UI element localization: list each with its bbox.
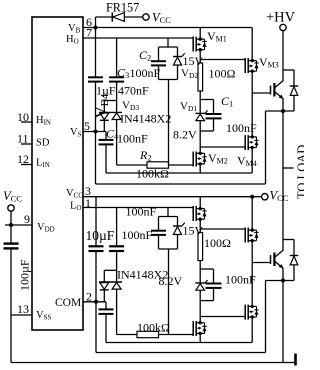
terminal +HV	[280, 24, 286, 30]
resistor 100 Ohm (lower)	[198, 233, 203, 261]
wire lower C1 loop rails	[200, 268, 213, 270]
capacitor C4 100nF	[99, 132, 114, 174]
svg-text:15V: 15V	[183, 54, 204, 68]
svg-text:VD3: VD3	[122, 100, 139, 113]
svg-text:C3: C3	[117, 66, 129, 81]
svg-text:VD2: VD2	[181, 68, 198, 81]
svg-text:VB: VB	[68, 23, 81, 35]
wire gate line to VM3'	[200, 228, 245, 230]
transistor VM1	[193, 37, 207, 52]
capacitor 10uF	[89, 197, 104, 302]
svg-text:HO: HO	[66, 34, 79, 46]
diode VD3 (IN4148, right of pair)	[112, 113, 121, 165]
wire VB corner to VM3 drain	[251, 28, 253, 61]
svg-text:100nF: 100nF	[117, 132, 148, 146]
svg-text:VS: VS	[70, 127, 82, 139]
terminal Vcc (upper, bootstrap supply)	[143, 14, 149, 20]
svg-text:SD: SD	[36, 138, 50, 149]
svg-text:1: 1	[85, 196, 91, 210]
resistor 100 Ohm (upper)	[198, 63, 203, 91]
wire Vcc corner to VM3' drain	[251, 197, 253, 230]
wire VS down to mid rail	[95, 132, 97, 185]
svg-text:100kΩ: 100kΩ	[136, 167, 169, 181]
svg-text:100nF: 100nF	[122, 228, 153, 242]
wire lower loop rails	[159, 216, 178, 218]
pin stub 11	[21, 143, 32, 145]
wire VM1 drain to VB	[199, 28, 201, 40]
wire C1 loop rails	[200, 99, 213, 101]
wire lower diode-pair top link	[104, 269, 116, 271]
svg-text:LO: LO	[70, 201, 81, 213]
svg-text:100nF: 100nF	[126, 205, 157, 219]
terminal Vcc (lower)	[262, 194, 268, 200]
diode antiparallel (lower IGBT)	[290, 240, 299, 281]
wire VS pin5 line	[83, 131, 106, 133]
wire Vcc line pin3	[83, 196, 252, 198]
svg-text:VCC: VCC	[66, 188, 83, 200]
svg-text:FR157: FR157	[106, 1, 139, 15]
capacitor C3 470nF	[109, 38, 124, 112]
capacitor 100nF (lower C4)	[99, 302, 114, 343]
svg-text:VD4: VD4	[92, 94, 112, 119]
svg-text:+HV: +HV	[266, 10, 296, 26]
svg-text:7: 7	[86, 25, 92, 39]
wire emitter rail (midpoint)	[266, 110, 295, 112]
svg-text:100µF: 100µF	[18, 259, 32, 291]
diode IN4148 (right of lower pair)	[112, 283, 121, 335]
svg-text:2: 2	[86, 289, 92, 303]
svg-text:VCC: VCC	[270, 189, 289, 204]
wire pin9 VDD line	[5, 224, 32, 226]
svg-text:IN4148X2: IN4148X2	[117, 268, 168, 282]
transistor VM2	[193, 152, 207, 167]
wire midpoint down to VS rail	[265, 111, 267, 184]
svg-text:VD1: VD1	[180, 101, 197, 114]
svg-text:12: 12	[17, 152, 29, 166]
node junction COM	[94, 300, 98, 304]
wire VS rail to bridge midpoint	[96, 183, 266, 185]
capacitor C1 100nF	[206, 100, 222, 132]
svg-text:470nF: 470nF	[118, 84, 149, 98]
transistor VM3'	[245, 228, 259, 243]
svg-text:10: 10	[17, 110, 29, 124]
svg-text:LIN: LIN	[36, 158, 50, 170]
transistor VM4	[245, 135, 259, 150]
wire COM pin2 line	[83, 301, 106, 303]
transistor VM2'	[193, 321, 207, 336]
IC U1 IR2110 body	[32, 17, 83, 330]
node lower emitter junction	[281, 279, 285, 283]
wire VM1' source down	[199, 219, 201, 232]
terminal Vcc (left)	[8, 205, 14, 211]
svg-text:VCC: VCC	[3, 189, 22, 204]
wire COM down to lower mid rail	[95, 302, 97, 353]
transistor VM4'	[245, 305, 259, 320]
wire negative gate rail	[106, 172, 252, 174]
svg-text:C1: C1	[221, 94, 233, 109]
svg-text:VM2: VM2	[208, 151, 228, 166]
node midpoint	[281, 109, 285, 113]
diode IN4148 (left of lower pair)	[99, 270, 122, 302]
wire VM4' gate line	[200, 316, 245, 318]
svg-text:VCC: VCC	[152, 11, 171, 26]
resistor 100kOhm (lower)	[117, 331, 194, 337]
wire VB rail pin6	[83, 27, 252, 29]
node junction Vcc/VM3'	[250, 195, 254, 199]
wire to zener 8.2V (lower)	[199, 261, 201, 284]
wire VM1 source down	[199, 50, 201, 63]
svg-text:TO LOAD: TO LOAD	[295, 145, 304, 199]
pin stub 12	[21, 164, 32, 166]
svg-text:VSS: VSS	[36, 310, 51, 322]
capacitor 100nF (LO speedup)	[109, 208, 124, 283]
terminal bottom right bar	[294, 354, 297, 366]
IGBT Q1 (upper)	[252, 81, 283, 111]
wire COM rail to lower midpoint	[96, 352, 266, 354]
wire TO LOAD stub	[283, 167, 294, 169]
capacitor 100nF (left branch of lower loop)	[151, 217, 166, 250]
wire loop bottom drop to R2 line	[168, 80, 170, 166]
wire lower negative gate rail	[106, 342, 252, 344]
wire +HV feed	[283, 31, 294, 81]
resistor R2 100kOhm	[117, 162, 194, 168]
wire gate line to VM3	[200, 59, 245, 61]
svg-text:100nF: 100nF	[226, 121, 257, 135]
wire LO line pin1	[83, 207, 193, 209]
capacitor 1uF (VB-VS bootstrap)	[88, 28, 103, 132]
capacitor 100uF	[4, 244, 19, 315]
svg-text:VDD: VDD	[37, 222, 55, 234]
wire diode-pair top link	[104, 100, 116, 102]
wire Vcc left down	[10, 211, 12, 243]
capacitor 100nF (lower C1)	[206, 269, 222, 301]
svg-text:8.2V: 8.2V	[173, 128, 197, 142]
zener VD1 8.2V	[195, 110, 207, 131]
wire VM1' drain to Vcc	[199, 197, 201, 209]
wire VM3 source to VM4 drain (midpoint)	[251, 71, 253, 137]
wire pin13 VSS line	[11, 314, 32, 316]
capacitor C2 100nF (left branch of loop)	[151, 47, 166, 80]
wire midpoint column down	[282, 111, 284, 251]
wire VM4 source down to negative rail	[251, 148, 253, 174]
pin stub 10	[21, 121, 32, 123]
wire to Vcc terminal (lower)	[252, 196, 261, 198]
wire bottom rail	[11, 362, 296, 364]
svg-text:VM3: VM3	[259, 55, 279, 70]
zener VD2 15V (right branch of loop)	[173, 47, 185, 80]
transistor VM1'	[193, 206, 207, 221]
wire VM2' drain up	[199, 301, 201, 323]
wire loop hanger (lower)	[167, 208, 169, 217]
svg-text:VM4: VM4	[237, 154, 257, 169]
svg-text:100nF: 100nF	[130, 66, 161, 80]
wire 100ohm to zener VD1	[199, 91, 201, 114]
svg-text:VM1: VM1	[207, 29, 227, 44]
wire HO line pin7	[83, 37, 193, 39]
wire lower emitter down to bottom rail	[282, 281, 284, 363]
wire VM4 gate line	[200, 146, 245, 148]
wire VM3' source to VM4' drain	[251, 241, 253, 307]
svg-text:5: 5	[84, 119, 90, 133]
diode antiparallel (upper IGBT)	[290, 70, 299, 111]
svg-text:100kΩ: 100kΩ	[137, 321, 170, 335]
wire VM2 drain up	[199, 131, 201, 153]
svg-text:15V: 15V	[183, 224, 204, 238]
wire C2 loop hanger	[167, 38, 169, 47]
svg-text:100Ω: 100Ω	[204, 236, 231, 250]
svg-text:13: 13	[17, 302, 29, 316]
node junction VDD	[9, 223, 13, 227]
node junction VB/diode/1uF	[94, 26, 98, 30]
svg-text:100Ω: 100Ω	[209, 67, 236, 81]
zener 15V (right branch of lower loop)	[173, 217, 185, 250]
zener 8.2V (lower)	[195, 280, 207, 301]
wire lower emitter rail to COM rail	[265, 281, 267, 353]
diode VD4 (IN4148, left of pair)	[99, 101, 122, 132]
svg-text:10µF: 10µF	[86, 228, 115, 243]
diode FR157 (bootstrap)	[96, 12, 143, 27]
IGBT Q2 (lower)	[252, 250, 283, 280]
wire lower loop drop	[168, 249, 170, 335]
svg-text:COM: COM	[55, 297, 81, 309]
svg-text:HIN: HIN	[36, 115, 51, 127]
svg-text:100nF: 100nF	[225, 273, 256, 287]
wire VSS down to bottom rail	[10, 315, 12, 363]
svg-text:11: 11	[17, 132, 29, 146]
wire VM2' source down	[199, 333, 201, 342]
wire lower emitter rail	[266, 280, 295, 282]
svg-text:IN4148X2: IN4148X2	[120, 112, 171, 126]
node junction VS	[94, 130, 98, 134]
wire VM4' source down	[251, 317, 253, 343]
svg-text:C2: C2	[139, 48, 151, 63]
wire loop top/bottom rails	[159, 46, 178, 48]
svg-text:9: 9	[24, 212, 30, 226]
wire VM2 source down	[199, 164, 201, 173]
svg-text:R2: R2	[139, 148, 152, 163]
wire lower diode jog	[283, 239, 294, 241]
transistor VM3	[245, 58, 259, 73]
